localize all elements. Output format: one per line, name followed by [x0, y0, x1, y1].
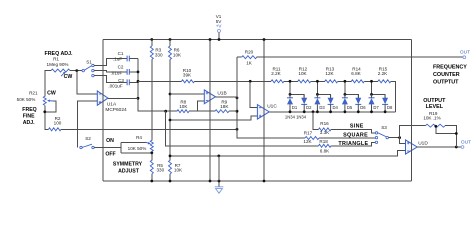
- junction R2 line end: [236, 128, 239, 131]
- op-amp U1B: [204, 90, 215, 104]
- svg-text:R20: R20: [245, 50, 254, 55]
- svg-text:R1: R1: [53, 57, 59, 62]
- wire diode pair 3 node drop: [345, 81, 358, 98]
- junction C2 bus: [137, 71, 140, 74]
- junction D2 on summing line: [303, 110, 306, 113]
- switch S3: [375, 132, 388, 144]
- diode D7: [369, 94, 375, 111]
- junction D3 on summing line: [316, 110, 319, 113]
- wire C1 right plate to bus: [129, 58, 138, 60]
- wire U1D inverting return: [170, 151, 406, 156]
- wire R11 chain segment1: [267, 80, 271, 82]
- svg-text:S3: S3: [381, 125, 387, 130]
- svg-text:2.2K: 2.2K: [271, 71, 281, 76]
- svg-text:.001uF: .001uF: [108, 84, 122, 89]
- junction bracket node 2: [316, 93, 319, 96]
- junction D6 on summing line: [357, 110, 360, 113]
- svg-text:FREQ: FREQ: [22, 107, 36, 113]
- wire R20 left lead: [237, 56, 242, 58]
- junction R6 top rail: [169, 38, 172, 41]
- wire U1B output: [216, 96, 238, 98]
- wiper arrow R4: [146, 142, 151, 145]
- wire U1D output: [417, 146, 461, 148]
- svg-text:D1: D1: [292, 105, 298, 110]
- svg-text:18K: 18K: [220, 104, 229, 109]
- switch S1: [82, 64, 94, 77]
- wire diode pair 4 node drop: [372, 81, 386, 98]
- wire C2 right plate to bus: [129, 71, 138, 73]
- resistor R2: [49, 128, 62, 131]
- junction wiper line joins: [455, 132, 458, 135]
- svg-text:ADJ.: ADJ.: [23, 120, 35, 126]
- junction S3 pole node: [398, 136, 401, 139]
- junction feedback R9 node: [236, 110, 239, 113]
- junction C3 bus: [137, 80, 140, 83]
- wire capacitor bus: [138, 59, 166, 112]
- wire OFF line: [121, 152, 152, 154]
- wire supply through U1C: [263, 104, 265, 120]
- wire S1 throw3 to C3: [94, 76, 127, 83]
- svg-text:U1A: U1A: [107, 101, 117, 107]
- wire R5 bottom lead: [151, 174, 153, 181]
- junction output node: [455, 146, 458, 149]
- resistor R14: [351, 80, 364, 83]
- svg-text:3.3K: 3.3K: [320, 130, 330, 135]
- wire diode summing line: [290, 111, 396, 113]
- svg-text:10K .1%: 10K .1%: [423, 115, 440, 120]
- svg-text:.1uF: .1uF: [113, 57, 122, 62]
- svg-text:D5: D5: [347, 105, 353, 110]
- junction return ground stub: [217, 155, 220, 158]
- junction sine tap: [312, 110, 315, 113]
- wire R1 right to node: [70, 70, 83, 72]
- wire U1B supply vertical: [209, 40, 211, 182]
- wire R8 right to R9 left: [189, 110, 215, 112]
- junction U1C inverting tap: [249, 80, 252, 83]
- svg-text:R18: R18: [319, 139, 328, 144]
- op-amp U1C: [257, 105, 269, 120]
- svg-text:FREQUENCY: FREQUENCY: [433, 65, 467, 71]
- diode D8: [382, 94, 388, 111]
- junction D7 on summing line: [370, 110, 373, 113]
- svg-text:FINE: FINE: [23, 114, 35, 120]
- junction D5 on summing line: [344, 110, 347, 113]
- junction U1B output node: [236, 97, 239, 100]
- junction D1 on summing line: [289, 110, 292, 113]
- wire integrator node line: [138, 80, 182, 82]
- resistor R20: [242, 56, 257, 59]
- capacitor C3: [127, 79, 129, 85]
- svg-text:10K 50%: 10K 50%: [128, 146, 147, 151]
- wire R10 to diode chain: [195, 80, 268, 82]
- svg-text:R21: R21: [29, 91, 38, 96]
- wire ground bottom rail: [103, 180, 411, 182]
- wiper arrow R21: [48, 99, 54, 102]
- wire R6 top lead: [169, 40, 171, 47]
- junction D4 on summing line: [329, 110, 332, 113]
- wire R4 to R5: [151, 151, 153, 160]
- resistor R5: [150, 160, 153, 174]
- svg-text:12K: 12K: [325, 71, 334, 76]
- svg-text:D7: D7: [373, 105, 379, 110]
- svg-text:10K: 10K: [179, 104, 188, 109]
- svg-text:OUTPTUT: OUTPTUT: [433, 79, 459, 85]
- diode D1: [287, 94, 293, 111]
- wire R19 wiper to output: [436, 126, 457, 134]
- svg-text:D8: D8: [387, 105, 393, 110]
- diode D2: [301, 94, 307, 111]
- svg-text:12K: 12K: [303, 139, 312, 144]
- resistor R17: [305, 137, 319, 140]
- svg-text:R17: R17: [304, 130, 313, 135]
- wire R3 top lead: [151, 40, 153, 47]
- junction U1C supply top: [263, 38, 266, 41]
- svg-text:100: 100: [54, 121, 62, 126]
- junction R5 bottom rail: [150, 180, 153, 183]
- wire supply through U1B: [209, 89, 211, 104]
- ground symbol: [215, 181, 224, 193]
- svg-text:SQUARE: SQUARE: [343, 133, 368, 139]
- wire chain node4 seg: [364, 80, 378, 82]
- svg-text:ADJUST: ADJUST: [118, 168, 140, 174]
- junction ref to U1C: [169, 119, 172, 122]
- svg-text:39K: 39K: [183, 73, 192, 78]
- wire ON line: [121, 142, 146, 144]
- svg-text:D2: D2: [306, 105, 312, 110]
- svg-text:C2: C2: [118, 65, 124, 70]
- svg-text:LEVEL: LEVEL: [426, 104, 444, 110]
- svg-text:330: 330: [156, 168, 164, 173]
- wire R6 vertical line: [169, 60, 171, 161]
- resistor R16: [319, 128, 332, 131]
- svg-text:1N34 1N34: 1N34 1N34: [285, 115, 307, 120]
- junction triangle tap: [164, 110, 167, 113]
- svg-text:OUT: OUT: [461, 140, 471, 146]
- wire diode pair 2 node drop: [317, 81, 330, 98]
- svg-text:D4: D4: [333, 105, 339, 110]
- svg-text:+V: +V: [216, 24, 223, 29]
- resistor R18: [319, 144, 332, 147]
- junction bracket node 1: [289, 93, 292, 96]
- junction U1A output bus: [137, 97, 140, 100]
- svg-text:R4: R4: [136, 135, 142, 140]
- resistor R3: [150, 46, 153, 60]
- resistor R11: [271, 80, 284, 83]
- wire chain node1 seg: [284, 80, 298, 82]
- wire S2 to split: [94, 147, 121, 149]
- wire S1 throw2 to C2: [94, 71, 127, 72]
- wire S1 throw1 to C1: [94, 59, 127, 66]
- junction R3 top rail: [150, 38, 153, 41]
- wire supply through U1A: [102, 90, 104, 106]
- wire ref to U1B noninverting: [170, 93, 204, 95]
- wire U1A supply vertical: [102, 40, 104, 182]
- svg-text:S2: S2: [85, 136, 91, 141]
- svg-text:CW: CW: [64, 74, 73, 80]
- wire U1B feedback vertical: [236, 57, 238, 129]
- wiper arrow R1: [61, 72, 65, 76]
- wire U1B inverting input: [198, 101, 205, 111]
- svg-text:.01uF: .01uF: [111, 71, 123, 76]
- wire U1C output to diode line: [269, 111, 313, 113]
- junction R21 bottom: [43, 110, 46, 113]
- svg-text:U1B: U1B: [217, 90, 226, 96]
- svg-text:COUNTER: COUNTER: [433, 72, 460, 78]
- junction OFF to R4R5: [150, 151, 153, 154]
- wire U1C supply vertical: [263, 40, 265, 182]
- svg-text:1Meg 90%: 1Meg 90%: [47, 62, 69, 67]
- terminal OUT: [461, 146, 464, 149]
- wire R15 right return: [391, 81, 396, 112]
- svg-text:ON: ON: [106, 138, 114, 144]
- wire triangle line left: [166, 111, 319, 146]
- wire U1C+ from square node: [237, 129, 305, 138]
- junction ground on bottom rail: [218, 180, 221, 183]
- diode D3: [314, 94, 320, 111]
- wire R2 to U1C+ node line: [61, 128, 237, 130]
- wire S3 pole to U1D: [388, 137, 399, 139]
- wire return ground stub: [218, 156, 220, 181]
- wire R9 right to feedback: [229, 110, 237, 112]
- wire sine tap vertical: [313, 112, 319, 130]
- wire diode pair 1 node drop: [290, 81, 304, 98]
- svg-text:OUT: OUT: [460, 50, 470, 56]
- wire V+ top rail: [103, 39, 411, 41]
- svg-text:U1C: U1C: [267, 103, 277, 109]
- wire R19 right lead: [445, 126, 456, 147]
- wire U1A output: [108, 97, 138, 99]
- wire U1C inverting input: [250, 81, 257, 107]
- wire square line to S3: [319, 137, 375, 139]
- svg-text:10K: 10K: [173, 52, 182, 57]
- switch S2: [80, 144, 94, 149]
- junction R19 wiper: [434, 125, 437, 128]
- junction R7 return: [169, 155, 172, 158]
- svg-text:S1: S1: [86, 59, 92, 64]
- wire R21 to R2: [45, 105, 49, 129]
- svg-text:10K: 10K: [174, 168, 183, 173]
- wire R7 bottom lead: [169, 174, 171, 181]
- wire R20 to counter OUT: [257, 56, 463, 58]
- diode D4: [328, 94, 334, 111]
- svg-text:SYMMETRY: SYMMETRY: [113, 162, 143, 168]
- svg-text:10K: 10K: [298, 71, 307, 76]
- resistor R12: [298, 80, 311, 83]
- potentiometer R4: [150, 140, 153, 151]
- svg-text:330: 330: [155, 52, 163, 57]
- junction R6 R7 mid to U1B: [169, 93, 172, 96]
- capacitor C2: [127, 69, 129, 75]
- junction R1 S1 U1A node: [75, 69, 78, 72]
- svg-text:50K 50%: 50K 50%: [17, 97, 36, 102]
- wire pole to R19: [400, 126, 426, 138]
- wire S2 split vertical: [120, 143, 122, 153]
- svg-text:R16: R16: [320, 121, 329, 126]
- junction R7 bottom rail: [169, 180, 172, 183]
- wire R21 wiper loop: [45, 101, 56, 112]
- op-amp U1A: [97, 91, 108, 105]
- svg-text:D6: D6: [360, 105, 366, 110]
- svg-text:TRIANGLE: TRIANGLE: [338, 141, 368, 147]
- resistor R8: [177, 110, 189, 113]
- junction U1C supply bottom: [263, 180, 266, 183]
- wire R3 vertical line: [151, 60, 153, 141]
- wire R8 left segment: [166, 110, 177, 112]
- potentiometer R1: [51, 69, 70, 72]
- svg-text:U1D: U1D: [418, 141, 428, 147]
- junction V1 on top rail: [218, 38, 221, 41]
- junction U1B supply bottom: [209, 180, 212, 183]
- diode D6: [355, 94, 361, 111]
- svg-text:1K: 1K: [246, 61, 253, 66]
- wire triangle line to S3: [331, 143, 375, 146]
- svg-text:SINE: SINE: [350, 123, 364, 129]
- junction chain node 4: [370, 80, 373, 83]
- wire U1C noninverting input: [170, 116, 257, 120]
- wire R1 left to R21: [45, 71, 51, 97]
- wire chain node2 seg: [311, 80, 325, 82]
- junction chain node 2: [316, 80, 319, 83]
- op-amp U1D: [406, 140, 418, 154]
- junction chain node 1: [289, 80, 292, 83]
- wire chain node3 seg: [338, 80, 352, 82]
- junction bracket node 4: [370, 93, 373, 96]
- wire U1A noninverting input from S2: [78, 101, 98, 148]
- wire pole to U1D noninverting: [400, 138, 406, 144]
- wire S1 node to U1A inverting input: [77, 71, 98, 94]
- resistor R7: [169, 160, 172, 174]
- potentiometer R19: [426, 124, 446, 127]
- voltage source V1 +V terminal: [218, 29, 221, 39]
- svg-text:6.8K: 6.8K: [351, 71, 361, 76]
- svg-text:2.2K: 2.2K: [378, 71, 388, 76]
- resistor R9: [215, 110, 229, 113]
- svg-text:OFF: OFF: [105, 151, 115, 157]
- junction chain node 3: [344, 80, 347, 83]
- resistor R13: [325, 80, 338, 83]
- diode D5: [342, 94, 348, 111]
- terminal counter OUT: [463, 56, 466, 59]
- junction U1B supply top: [209, 38, 212, 41]
- junction bracket node 3: [344, 93, 347, 96]
- svg-text:C1: C1: [118, 51, 124, 56]
- resistor R6: [169, 46, 172, 60]
- svg-text:CW: CW: [47, 90, 56, 96]
- svg-text:D3: D3: [319, 105, 325, 110]
- svg-text:C3: C3: [118, 78, 124, 83]
- potentiometer R21: [43, 96, 46, 105]
- wire sine line to S3: [331, 129, 375, 133]
- wire U1D supply vertical: [410, 40, 412, 182]
- wire C3 right plate to bus: [129, 81, 138, 83]
- resistor R10: [182, 80, 195, 83]
- junction D8 on summing line: [384, 110, 387, 113]
- capacitor C1: [127, 56, 129, 62]
- wire supply through U1D: [410, 139, 412, 155]
- svg-text:MCP6024: MCP6024: [105, 107, 127, 113]
- resistor R15: [378, 80, 391, 83]
- svg-text:6.8K: 6.8K: [320, 149, 330, 154]
